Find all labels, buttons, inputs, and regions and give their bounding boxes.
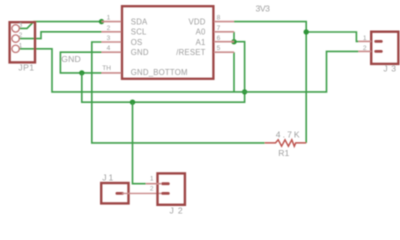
svg-text:GND: GND — [61, 54, 81, 64]
wire GND branch down and right up to U1 pin6 — [82, 42, 245, 102]
svg-text:3: 3 — [107, 35, 111, 42]
JP1 pad circle 1 — [12, 45, 19, 52]
svg-text:2: 2 — [107, 25, 111, 32]
op IC U1 box — [122, 6, 213, 79]
resistor R1 — [265, 140, 307, 146]
wire OS pull-up net: U1 pin3 down to resistor R1 left lead — [92, 42, 265, 143]
svg-text:7: 7 — [217, 25, 221, 32]
connector J3 box — [371, 32, 398, 64]
node junction GND drop to J2 — [130, 100, 135, 105]
svg-text:5: 5 — [217, 45, 221, 52]
svg-text:A0: A0 — [196, 28, 206, 37]
svg-text:1: 1 — [150, 176, 154, 183]
node junction at U1 pin6 — [231, 39, 236, 44]
svg-text:1: 1 — [19, 42, 23, 49]
svg-text:4.7K: 4.7K — [276, 129, 300, 139]
svg-text:J1: J1 — [102, 172, 113, 182]
pin stubs U1 left — [102, 22, 122, 73]
wire GND drop to J2 pin1 — [133, 102, 146, 184]
wire 3V3 branch to J3 pin1 — [306, 32, 358, 41]
svg-text:TH: TH — [102, 65, 111, 72]
connector J2 box — [158, 173, 185, 204]
wire SDA net: JP1-3 to U1 pin1 — [19, 22, 101, 29]
JP1 pad circle 2 — [12, 35, 19, 42]
J1 pad mark — [116, 192, 124, 195]
svg-text:3V3: 3V3 — [256, 3, 271, 13]
svg-text:8: 8 — [217, 15, 221, 22]
svg-text:1: 1 — [107, 15, 111, 22]
J2 pad mark 1 — [161, 182, 169, 185]
svg-text:1: 1 — [363, 35, 367, 42]
svg-text:GND: GND — [131, 48, 149, 57]
svg-text:SDA: SDA — [131, 18, 148, 27]
svg-text:2: 2 — [150, 185, 154, 192]
wire GND loop: U1 pin4 to TH with label frame — [60, 52, 101, 73]
svg-text:2: 2 — [363, 45, 367, 52]
wire U1 pin5 down to horizontal — [233, 52, 235, 92]
J3 pad mark 2 — [374, 50, 382, 53]
node junction GND at 81.8,72.9 — [79, 70, 84, 75]
svg-text:JP1: JP1 — [18, 63, 34, 73]
svg-text:6: 6 — [217, 35, 221, 42]
svg-text:GND_BOTTOM: GND_BOTTOM — [131, 68, 188, 77]
wire SCL net: JP1-2 to U1 pin2 — [19, 32, 101, 39]
svg-text:/RESET: /RESET — [176, 48, 205, 57]
svg-text:VDD: VDD — [189, 18, 206, 27]
J3 pin stub 2 — [358, 50, 371, 52]
J2 pad mark 2 — [161, 192, 169, 195]
wire U1 pin7 down to pin6 junction — [233, 32, 235, 42]
pin stubs U1 right — [214, 22, 234, 53]
connector JP1 box — [10, 22, 35, 62]
wire JP1-1 long net to J3 pin2 — [19, 49, 358, 92]
JP1 pad circle 3 — [12, 25, 19, 32]
J3 pin stub 1 — [358, 40, 371, 42]
J3 pad mark 1 — [374, 40, 382, 43]
wire J1 pin to J2 pin2 — [122, 192, 162, 194]
svg-text:R1: R1 — [278, 148, 289, 158]
svg-text:4: 4 — [107, 45, 111, 52]
svg-text:3: 3 — [19, 22, 23, 29]
svg-text:2: 2 — [19, 32, 23, 39]
wire 3V3 net: U1 pin8 right then down to R1 right lead — [234, 22, 306, 143]
connector J1 box — [101, 183, 128, 203]
svg-text:A1: A1 — [196, 38, 206, 47]
node junction 3V3 — [304, 29, 309, 34]
J2 pin stub 1 — [146, 183, 161, 185]
node junction on horizontal 91.9 — [242, 89, 247, 94]
svg-text:OS: OS — [131, 38, 143, 47]
svg-text:SCL: SCL — [131, 28, 147, 37]
node junction on SDA at U1 pin1 — [99, 19, 104, 24]
